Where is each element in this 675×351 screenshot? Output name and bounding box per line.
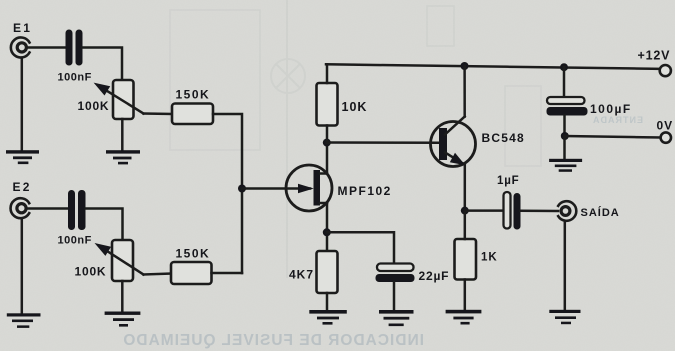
junction node A (drain/10K/base) — [323, 139, 331, 147]
potentiometer P2 wiper arrow — [95, 243, 144, 275]
ground (100uF) — [549, 159, 582, 172]
wire emitter node to 1uF — [465, 209, 504, 212]
junction gate node — [238, 185, 246, 193]
potentiometer 100K (P2 body) — [112, 240, 133, 281]
junction rail/100uF — [560, 63, 568, 71]
capacitor 100nF (E1) — [66, 30, 83, 66]
wire node A to Q2 base — [327, 141, 440, 144]
capacitor 22uF — [376, 264, 415, 283]
ground (E2) — [7, 313, 41, 328]
potentiometer 100K (P1 body) — [113, 80, 134, 119]
node E2 connector — [11, 198, 30, 218]
svg-text:100µF: 100µF — [590, 102, 632, 116]
svg-text:1µF: 1µF — [497, 175, 519, 187]
wire C2 to pot P2 — [86, 209, 123, 241]
wire 1uF to SAIDA — [521, 210, 559, 213]
node E1 connector — [11, 38, 30, 58]
wire E1 to C1 — [27, 46, 66, 49]
capacitor 100uF — [547, 97, 588, 116]
ground (SAIDA) — [549, 310, 580, 324]
node SAIDA connector — [558, 201, 576, 221]
svg-text:4K7: 4K7 — [289, 268, 314, 282]
ground (E1) — [6, 150, 39, 164]
svg-text:100nF: 100nF — [58, 72, 92, 84]
svg-text:MPF102: MPF102 — [338, 184, 392, 198]
terminal 0V — [661, 132, 671, 142]
wire drain to node A — [326, 143, 329, 174]
ground (4K7) — [309, 310, 347, 325]
wire P1 wiper to R1 — [144, 112, 173, 115]
0V rail — [565, 136, 661, 138]
svg-text:100nF: 100nF — [58, 234, 92, 246]
+12V rail — [326, 64, 660, 69]
svg-text:100K: 100K — [75, 265, 107, 279]
wire P1 bottom to ground — [121, 119, 124, 150]
wire 10K top to +12V rail — [326, 64, 329, 83]
svg-text:ENTRADA: ENTRADA — [592, 115, 643, 125]
wire collector to rail — [463, 66, 466, 117]
svg-text:100K: 100K — [78, 99, 110, 113]
wire source to node B — [326, 203, 329, 251]
wire 22uF to ground — [393, 282, 396, 310]
junction 0V node — [561, 132, 569, 140]
wire SAIDA shield to ground — [564, 221, 567, 310]
svg-text:22µF: 22µF — [419, 269, 450, 283]
wire C1 to pot P1 — [83, 48, 123, 81]
wire R1 to gate bus — [213, 114, 242, 273]
transistor BC548 (Q2) — [431, 117, 476, 167]
svg-text:INDICADOR DE FUSIVEL QUEIMADO: INDICADOR DE FUSIVEL QUEIMADO — [122, 332, 424, 349]
wire rail to 100uF — [563, 67, 566, 97]
wire E2 shield to ground — [21, 218, 24, 313]
ghost bleed-through layer — [170, 0, 541, 278]
ground (P1) — [106, 150, 140, 164]
capacitor 1uF — [504, 192, 521, 230]
resistor 150K (bottom) — [171, 262, 212, 284]
resistor 1K — [455, 239, 477, 280]
ground (P2) — [105, 312, 141, 327]
junction rail/collector — [461, 62, 469, 70]
terminal +12V — [660, 65, 671, 76]
wire E1 shield to ground — [21, 58, 24, 151]
wire P2 wiper to R2 — [144, 274, 172, 275]
resistor 4K7 — [317, 251, 338, 293]
potentiometer P1 wiper arrow — [94, 83, 144, 114]
resistor 150K (top) — [172, 104, 213, 125]
wire gate bus to Q1 gate — [242, 187, 310, 190]
svg-text:150K: 150K — [176, 87, 211, 101]
svg-text:1K: 1K — [481, 251, 498, 263]
svg-text:E1: E1 — [13, 21, 32, 35]
capacitor 100nF (E2) — [68, 190, 86, 230]
svg-text:10K: 10K — [342, 100, 368, 114]
JFET MPF102 (Q1) — [286, 165, 332, 211]
wire P2 bottom to ground — [121, 281, 124, 312]
wire emitter node to 1K — [464, 211, 467, 239]
wire 1K to ground — [464, 280, 467, 311]
wire emitter down — [464, 165, 467, 211]
junction node B (source/4K7/22uF) — [323, 228, 331, 236]
wire R2 to gate bus — [212, 272, 243, 275]
svg-text:+12V: +12V — [638, 49, 671, 63]
wire E2 to C2 — [27, 207, 68, 210]
wire node B to 22uF — [327, 232, 394, 263]
svg-text:BC548: BC548 — [482, 131, 525, 145]
ground (22uF) — [379, 310, 414, 326]
junction emitter node — [461, 207, 469, 215]
svg-text:0V: 0V — [657, 118, 674, 132]
svg-text:150K: 150K — [176, 246, 211, 260]
wire 100uF to 0V node — [563, 116, 566, 137]
wire 0V node to ground — [563, 136, 566, 159]
resistor 10K — [317, 83, 338, 126]
svg-text:E2: E2 — [13, 180, 32, 194]
wire 4K7 to ground — [326, 293, 329, 310]
wire 10K bottom to node A — [326, 126, 329, 143]
ground (1K) — [446, 310, 482, 325]
svg-text:SAÍDA: SAÍDA — [581, 206, 620, 219]
